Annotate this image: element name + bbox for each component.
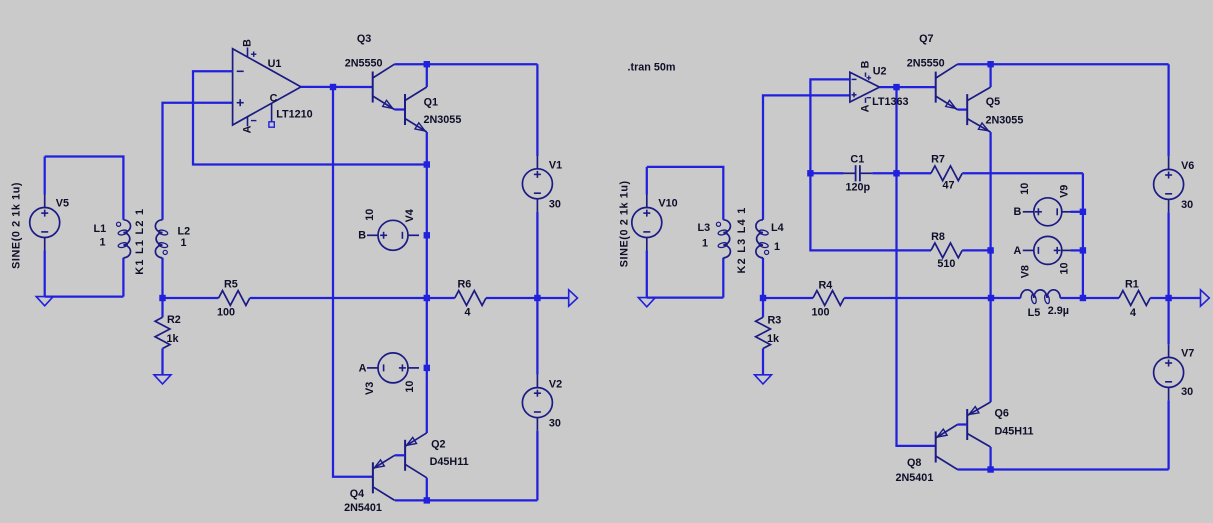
svg-text:SINE(0 2 1k 1u): SINE(0 2 1k 1u) (619, 180, 631, 267)
svg-text:47: 47 (943, 180, 955, 192)
svg-text:30: 30 (1181, 199, 1193, 211)
svg-text:Q3: Q3 (357, 33, 371, 45)
svg-text:B: B (860, 60, 872, 68)
svg-text:10: 10 (1019, 183, 1031, 195)
svg-text:V6: V6 (1181, 160, 1194, 172)
svg-text:LT1210: LT1210 (276, 108, 312, 120)
svg-text:LT1363: LT1363 (872, 96, 908, 108)
svg-text:B: B (358, 229, 366, 241)
svg-text:R6: R6 (458, 278, 472, 290)
svg-text:1: 1 (702, 237, 708, 249)
svg-text:R5: R5 (224, 278, 238, 290)
svg-text:2N5550: 2N5550 (907, 58, 945, 70)
svg-text:Q1: Q1 (424, 97, 438, 109)
svg-text:A: A (242, 125, 254, 133)
svg-text:C: C (270, 93, 278, 105)
svg-text:R3: R3 (768, 315, 782, 327)
svg-text:2N3055: 2N3055 (986, 114, 1024, 126)
svg-text:Q7: Q7 (919, 33, 933, 45)
svg-text:SINE(0 2 1k 1u): SINE(0 2 1k 1u) (11, 182, 23, 269)
svg-text:A: A (359, 362, 367, 374)
svg-text:120p: 120p (846, 181, 871, 193)
svg-text:30: 30 (549, 417, 561, 429)
svg-text:D45H11: D45H11 (430, 456, 469, 468)
svg-text:L4: L4 (771, 222, 784, 234)
svg-text:K2 L3 L4 1: K2 L3 L4 1 (736, 206, 748, 273)
svg-text:V9: V9 (1059, 185, 1071, 198)
svg-text:100: 100 (217, 306, 235, 318)
svg-text:10: 10 (364, 209, 376, 221)
svg-text:B: B (1014, 206, 1022, 218)
svg-text:2N5550: 2N5550 (345, 58, 383, 70)
svg-text:R8: R8 (931, 231, 945, 243)
svg-text:U2: U2 (873, 66, 887, 78)
svg-text:V4: V4 (404, 209, 416, 222)
svg-text:L3: L3 (698, 222, 711, 234)
svg-text:V1: V1 (549, 160, 562, 172)
svg-text:Q2: Q2 (431, 438, 445, 450)
svg-text:R2: R2 (167, 314, 181, 326)
svg-text:1: 1 (100, 237, 106, 249)
svg-text:V2: V2 (549, 378, 562, 390)
svg-text:V3: V3 (364, 382, 376, 395)
svg-text:K1 L1 L2 1: K1 L1 L2 1 (134, 208, 146, 275)
svg-text:510: 510 (937, 258, 955, 270)
svg-text:C1: C1 (850, 153, 864, 165)
svg-text:100: 100 (812, 307, 830, 319)
svg-text:10: 10 (404, 381, 416, 393)
svg-text:4: 4 (1130, 307, 1136, 319)
svg-text:V7: V7 (1181, 348, 1194, 360)
svg-text:2N5401: 2N5401 (344, 502, 382, 514)
svg-text:1k: 1k (767, 333, 780, 345)
svg-text:R7: R7 (931, 154, 945, 166)
svg-text:V10: V10 (658, 198, 677, 210)
svg-text:2N5401: 2N5401 (896, 472, 934, 484)
svg-text:B: B (242, 39, 254, 47)
svg-text:A: A (860, 104, 872, 112)
svg-text:Q4: Q4 (350, 488, 364, 500)
svg-text:30: 30 (549, 199, 561, 211)
svg-text:1k: 1k (167, 333, 180, 345)
svg-text:D45H11: D45H11 (995, 426, 1034, 438)
svg-text:L5: L5 (1028, 307, 1041, 319)
svg-text:V8: V8 (1020, 265, 1032, 278)
svg-text:U1: U1 (268, 58, 282, 70)
svg-text:4: 4 (465, 306, 471, 318)
svg-text:1: 1 (181, 237, 187, 249)
svg-text:R1: R1 (1125, 279, 1139, 291)
svg-text:R4: R4 (819, 279, 833, 291)
svg-text:30: 30 (1181, 386, 1193, 398)
svg-text:L1: L1 (94, 223, 107, 235)
svg-text:L2: L2 (178, 225, 191, 237)
svg-text:2N3055: 2N3055 (424, 114, 462, 126)
svg-text:V5: V5 (56, 198, 69, 210)
svg-text:1: 1 (774, 241, 780, 253)
svg-text:Q8: Q8 (907, 457, 921, 469)
svg-text:2.9µ: 2.9µ (1048, 305, 1069, 317)
svg-text:.tran 50m: .tran 50m (628, 61, 676, 73)
svg-text:A: A (1014, 245, 1022, 257)
svg-text:Q5: Q5 (986, 96, 1000, 108)
svg-text:Q6: Q6 (995, 407, 1009, 419)
svg-text:10: 10 (1059, 262, 1071, 274)
